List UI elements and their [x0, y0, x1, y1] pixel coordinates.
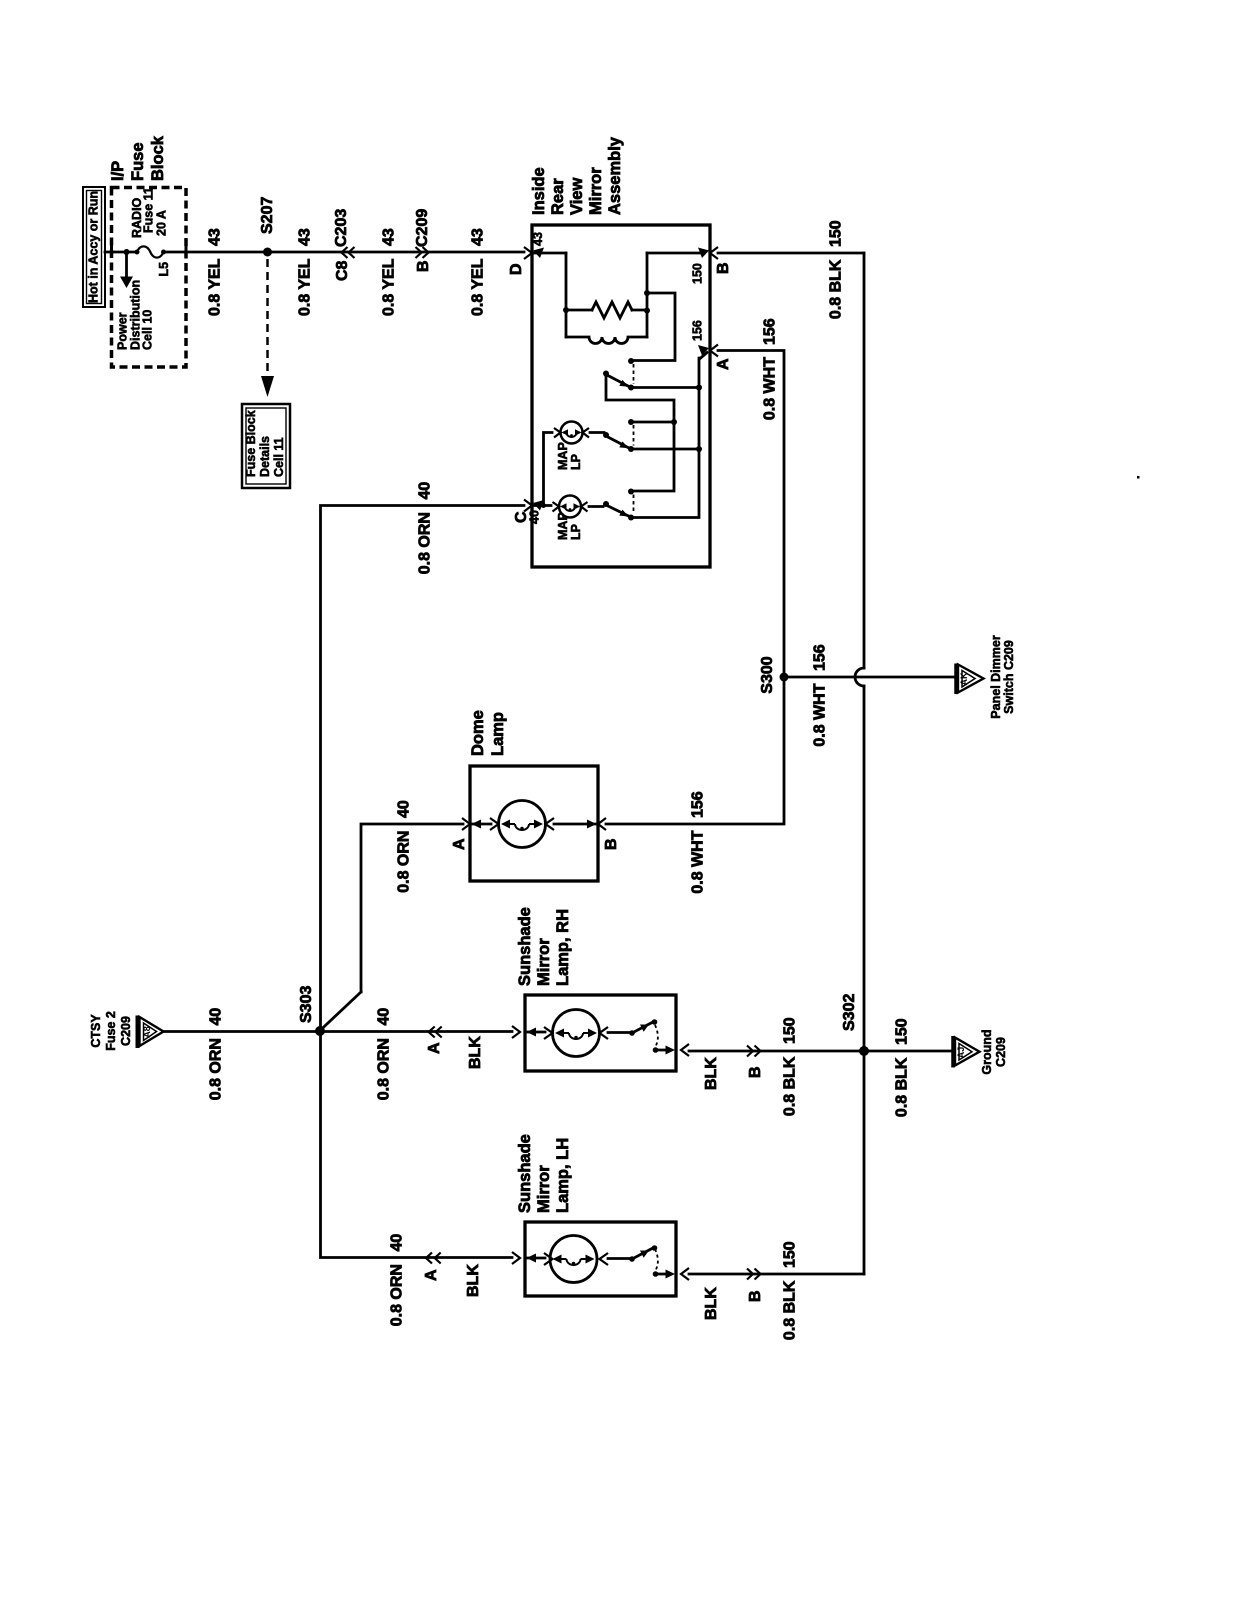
svg-text:I/P: I/P: [109, 161, 127, 181]
svg-text:AJ: AJ: [956, 1047, 966, 1059]
svg-text:Details: Details: [258, 436, 272, 477]
svg-text:A: A: [715, 358, 732, 370]
svg-text:156: 156: [690, 791, 707, 818]
svg-text:Hot in Accy or Run: Hot in Accy or Run: [87, 191, 101, 303]
svg-text:43: 43: [207, 228, 224, 246]
svg-text:S300: S300: [759, 656, 776, 693]
svg-text:Assembly: Assembly: [606, 136, 624, 215]
svg-text:Lamp, RH: Lamp, RH: [554, 909, 572, 986]
svg-text:View: View: [568, 178, 586, 215]
svg-text:20 A: 20 A: [155, 210, 169, 236]
svg-text:S207: S207: [259, 197, 276, 234]
svg-text:156: 156: [691, 320, 705, 341]
svg-text:43: 43: [297, 228, 314, 246]
svg-text:Sunshade: Sunshade: [516, 1134, 534, 1213]
svg-text:150: 150: [828, 220, 845, 247]
svg-text:L5: L5: [157, 262, 171, 277]
svg-text:MAP: MAP: [556, 442, 570, 470]
svg-text:Mirror: Mirror: [587, 167, 605, 215]
svg-text:0.8 WHT: 0.8 WHT: [812, 683, 829, 746]
svg-text:Cell 11: Cell 11: [272, 437, 286, 477]
svg-text:Ground: Ground: [980, 1029, 994, 1074]
svg-text:Fuse 2: Fuse 2: [104, 1011, 118, 1051]
svg-text:0.8 WHT: 0.8 WHT: [762, 357, 779, 420]
svg-text:43: 43: [470, 228, 487, 246]
svg-text:150: 150: [782, 1017, 799, 1044]
svg-text:0.8 YEL: 0.8 YEL: [297, 258, 314, 316]
svg-text:B: B: [747, 1290, 764, 1302]
svg-text:LP: LP: [569, 524, 583, 540]
svg-text:BLK: BLK: [467, 1036, 484, 1069]
svg-text:0.8 ORN: 0.8 ORN: [208, 1038, 225, 1100]
svg-text:0.8 BLK: 0.8 BLK: [828, 259, 845, 319]
svg-text:Cell 10: Cell 10: [141, 310, 155, 350]
svg-text:C209: C209: [119, 1016, 133, 1046]
svg-text:Block: Block: [149, 135, 167, 181]
svg-text:0.8 YEL: 0.8 YEL: [470, 258, 487, 316]
svg-text:Fuse 11: Fuse 11: [142, 187, 156, 233]
svg-text:40: 40: [208, 1008, 225, 1026]
svg-text:Dome: Dome: [469, 710, 487, 756]
svg-text:Panel Dimmer: Panel Dimmer: [989, 635, 1003, 719]
svg-text:40: 40: [389, 1234, 406, 1252]
svg-text:Inside: Inside: [530, 167, 548, 215]
svg-text:40: 40: [376, 1008, 393, 1026]
svg-text:B: B: [715, 262, 732, 274]
svg-text:0.8 BLK: 0.8 BLK: [782, 1056, 799, 1116]
svg-text:B: B: [747, 1066, 764, 1078]
svg-text:A8: A8: [142, 1026, 152, 1038]
svg-text:S303: S303: [298, 986, 315, 1023]
svg-text:Fuse: Fuse: [129, 142, 147, 181]
svg-text:CTSY: CTSY: [89, 1014, 103, 1048]
svg-text:156: 156: [812, 644, 829, 671]
svg-text:Sunshade: Sunshade: [516, 907, 534, 986]
svg-text:MAP: MAP: [556, 512, 570, 540]
svg-text:0.8 BLK: 0.8 BLK: [894, 1057, 911, 1117]
svg-text:156: 156: [762, 318, 779, 345]
svg-text:Fuse Block: Fuse Block: [244, 410, 258, 477]
svg-text:0.8 ORN: 0.8 ORN: [417, 512, 434, 574]
svg-text:B: B: [603, 838, 620, 850]
svg-text:0.8 YEL: 0.8 YEL: [207, 258, 224, 316]
svg-text:C8: C8: [334, 260, 351, 281]
svg-text:0.8 ORN: 0.8 ORN: [396, 831, 413, 893]
svg-text:150: 150: [894, 1018, 911, 1045]
svg-text:150: 150: [782, 1241, 799, 1268]
svg-text:BLK: BLK: [465, 1264, 482, 1297]
svg-text:40: 40: [528, 510, 542, 524]
svg-text:43: 43: [381, 228, 398, 246]
svg-text:S302: S302: [841, 994, 858, 1031]
svg-text:43: 43: [531, 232, 545, 246]
svg-text:0.8 WHT: 0.8 WHT: [690, 830, 707, 893]
svg-text:Power: Power: [116, 312, 130, 350]
svg-text:AK: AK: [959, 672, 969, 685]
svg-text:A: A: [426, 1042, 443, 1054]
svg-text:40: 40: [396, 800, 413, 818]
svg-text:40: 40: [417, 482, 434, 500]
svg-text:LP: LP: [569, 454, 583, 470]
svg-text:BLK: BLK: [703, 1057, 720, 1090]
svg-text:150: 150: [691, 263, 705, 284]
svg-text:C209: C209: [414, 209, 431, 247]
svg-text:0.8 ORN: 0.8 ORN: [389, 1264, 406, 1326]
svg-text:D: D: [508, 263, 525, 275]
svg-text:0.8 YEL: 0.8 YEL: [381, 258, 398, 316]
svg-text:Lamp, LH: Lamp, LH: [554, 1138, 572, 1213]
svg-text:C209: C209: [994, 1037, 1008, 1067]
svg-text:C203: C203: [333, 209, 350, 247]
svg-text:B: B: [415, 260, 432, 272]
svg-text:Lamp: Lamp: [489, 712, 507, 756]
svg-text:Switch C209: Switch C209: [1002, 640, 1016, 714]
svg-text:Mirror: Mirror: [535, 1165, 553, 1213]
svg-text:Mirror: Mirror: [535, 938, 553, 986]
svg-text:A: A: [423, 1269, 440, 1281]
svg-text:BLK: BLK: [703, 1287, 720, 1320]
svg-text:0.8 ORN: 0.8 ORN: [376, 1038, 393, 1100]
svg-text:Rear: Rear: [549, 178, 567, 215]
svg-text:A: A: [451, 838, 468, 850]
svg-text:0.8 BLK: 0.8 BLK: [782, 1280, 799, 1340]
